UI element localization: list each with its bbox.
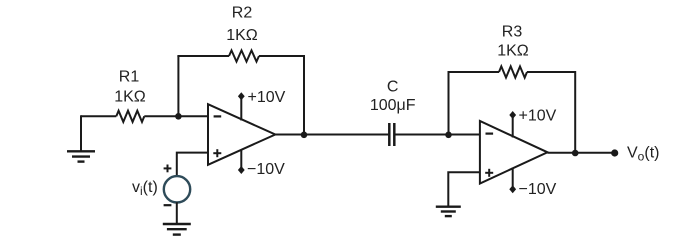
- wire: source bottom to ground: [176, 202, 178, 224]
- U1 +10V power pin: [240, 97, 242, 121]
- svg-text:100μF: 100μF: [370, 97, 416, 114]
- U2 plus symbol: [485, 169, 493, 177]
- U1 -10V power pin: [240, 150, 242, 171]
- svg-text:R2: R2: [232, 5, 253, 22]
- wire: R3 right leg down to output node: [574, 71, 576, 153]
- U2 +10V power pin: [512, 115, 514, 138]
- ground (below source vi): [163, 224, 191, 235]
- node: U1 output / R2 junction: [301, 132, 308, 139]
- svg-text:vi(t): vi(t): [132, 179, 158, 198]
- wire: R1 to op-amp U1 inverting input: [144, 115, 208, 117]
- wire: U2 output to terminal: [548, 152, 615, 154]
- source minus mark: [164, 204, 172, 206]
- wire: U2 plus input to ground: [448, 172, 480, 206]
- source plus mark: [164, 165, 172, 173]
- svg-text:+10V: +10V: [248, 89, 286, 106]
- svg-text:R1: R1: [119, 69, 140, 86]
- resistor R2: [229, 50, 259, 61]
- wire: R2 right leg down to U1 output node: [303, 55, 305, 135]
- wire: U1 output to capacitor: [275, 134, 388, 136]
- ground (right, U2 plus input): [436, 207, 461, 216]
- svg-text:+10V: +10V: [519, 107, 557, 124]
- wire: R3 rail right segment: [527, 71, 575, 73]
- wire: left ground to R1: [81, 115, 116, 117]
- wire: capacitor to U2 inverting input: [395, 134, 480, 136]
- wire: junction up to R2 (left leg): [177, 56, 179, 116]
- node: cap / R3 / U2 minus junction: [445, 132, 452, 139]
- svg-text:Vo(t): Vo(t): [627, 145, 659, 164]
- wire: R2 rail left segment: [177, 55, 229, 57]
- svg-text:−10V: −10V: [519, 181, 557, 198]
- wire: U1 plus input to source vi(t): [177, 153, 208, 177]
- resistor R3: [499, 66, 527, 77]
- svg-text:1KΩ: 1KΩ: [226, 27, 258, 44]
- U2 -10V power pin: [512, 168, 514, 190]
- svg-text:C: C: [387, 79, 399, 96]
- U1 plus symbol: [213, 149, 221, 157]
- resistor R1: [116, 111, 144, 122]
- svg-text:R3: R3: [502, 24, 523, 41]
- terminal node (output): [611, 149, 618, 156]
- wire: R3 rail left segment: [448, 71, 500, 73]
- ground (left, input): [67, 115, 95, 161]
- U2 minus symbol: [486, 133, 494, 135]
- svg-text:−10V: −10V: [247, 161, 285, 178]
- U1 minus symbol: [214, 115, 222, 117]
- node: U2 output / R3 junction: [572, 150, 579, 157]
- wire: R2 rail right segment: [259, 55, 304, 57]
- svg-text:1KΩ: 1KΩ: [114, 89, 146, 106]
- op-amp U1 (left): [208, 104, 275, 165]
- wire: junction up to R3 (left leg): [448, 72, 450, 135]
- op-amp U2 (right): [480, 121, 548, 184]
- node: junction R1 / R2 / U1 minus: [175, 113, 182, 120]
- svg-text:1KΩ: 1KΩ: [497, 43, 529, 60]
- capacitor C plates: [389, 123, 394, 146]
- source vi(t) circle: [164, 176, 190, 202]
